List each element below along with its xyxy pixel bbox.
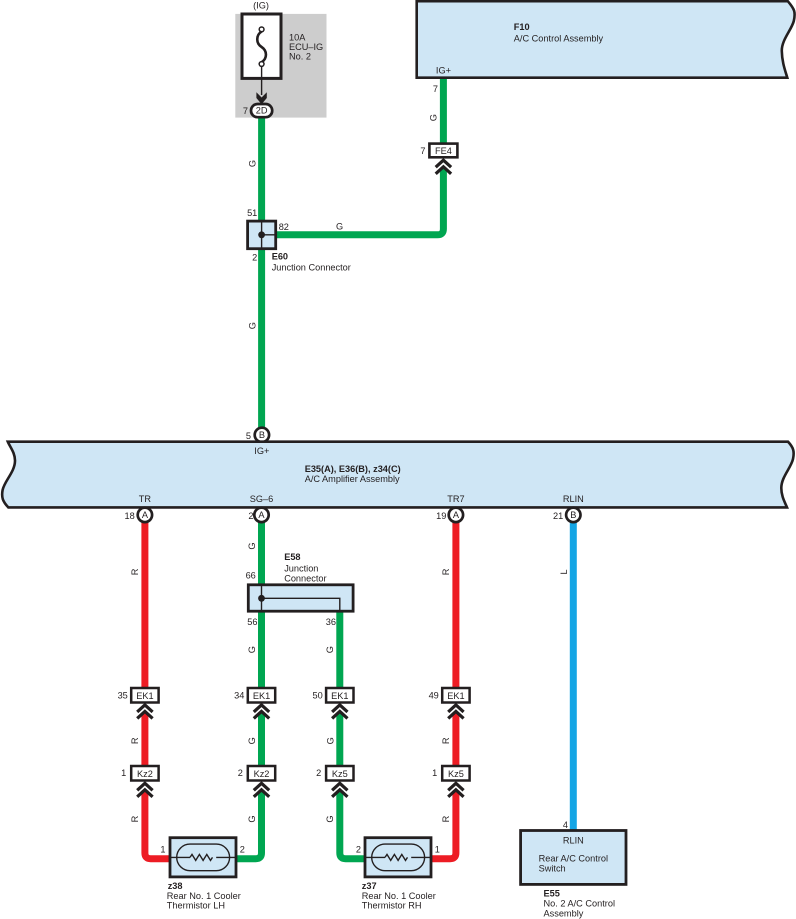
svg-text:RLIN: RLIN	[563, 836, 584, 846]
shield chevrons Kz5-2	[332, 783, 347, 790]
svg-text:18: 18	[124, 511, 134, 521]
svg-text:E60: E60	[272, 252, 288, 262]
shield chevrons EK1-49	[448, 705, 463, 712]
svg-text:No. 2 A/C Control: No. 2 A/C Control	[544, 899, 616, 909]
svg-text:51: 51	[247, 208, 257, 218]
svg-text:4: 4	[563, 820, 568, 830]
wire green main 2D to B	[258, 117, 265, 428]
svg-text:2: 2	[316, 768, 321, 778]
svg-text:(IG): (IG)	[253, 1, 269, 11]
svg-text:E58: E58	[284, 552, 300, 562]
shield chevrons Kz2-1	[137, 783, 152, 790]
svg-text:Kz5: Kz5	[332, 769, 348, 779]
junction connector E58	[246, 552, 354, 627]
wire blue RLIN to E55	[570, 521, 577, 831]
thermistor z38	[160, 838, 244, 911]
svg-text:Rear No. 1 Cooler: Rear No. 1 Cooler	[167, 891, 241, 901]
svg-text:5: 5	[246, 431, 251, 441]
svg-text:G: G	[336, 221, 343, 231]
svg-text:z37: z37	[362, 881, 377, 891]
svg-text:2: 2	[248, 511, 253, 521]
svg-text:EK1: EK1	[447, 691, 464, 701]
svg-text:49: 49	[429, 691, 439, 701]
svg-text:Kz2: Kz2	[137, 769, 153, 779]
fuse 10A ECU-IG No.2	[242, 1, 323, 96]
svg-text:2: 2	[356, 845, 361, 855]
svg-text:G: G	[325, 646, 335, 653]
svg-text:Thermistor LH: Thermistor LH	[167, 901, 225, 911]
svg-text:G: G	[247, 160, 257, 167]
wire red TR to z38 pin1	[141, 521, 148, 688]
svg-text:35: 35	[118, 691, 128, 701]
shield chevrons below FE4	[436, 160, 451, 167]
connector FE4	[420, 144, 457, 158]
svg-text:82: 82	[279, 222, 289, 232]
svg-text:R: R	[130, 737, 140, 744]
svg-text:G: G	[247, 815, 257, 822]
svg-text:A: A	[142, 510, 149, 520]
connector Kz2 pin1	[121, 766, 158, 781]
svg-text:G: G	[428, 114, 438, 121]
svg-text:G: G	[247, 737, 257, 744]
arrow into 2D	[256, 92, 266, 104]
svg-text:E35(A), E36(B), z34(C): E35(A), E36(B), z34(C)	[305, 464, 401, 474]
switch E55 Rear A/C Control Switch	[521, 831, 626, 919]
svg-text:66: 66	[246, 570, 256, 580]
svg-text:ECU–IG: ECU–IG	[289, 42, 323, 52]
svg-text:G: G	[247, 542, 257, 549]
svg-text:FE4: FE4	[435, 146, 452, 156]
svg-text:R: R	[130, 815, 140, 822]
svg-text:R: R	[441, 815, 451, 822]
svg-text:21: 21	[553, 511, 563, 521]
wire green E58-56 to z38 pin2	[258, 612, 265, 689]
connector EK1 pin34	[234, 688, 275, 703]
svg-text:Rear No. 1 Cooler: Rear No. 1 Cooler	[362, 891, 436, 901]
pin A 19 TR7	[436, 508, 463, 522]
svg-text:Junction: Junction	[284, 564, 318, 574]
svg-text:R: R	[441, 568, 451, 575]
svg-text:2D: 2D	[256, 106, 268, 116]
svg-text:EK1: EK1	[331, 691, 348, 701]
svg-text:F10: F10	[514, 22, 530, 32]
svg-text:G: G	[247, 322, 257, 329]
svg-text:Assembly: Assembly	[544, 908, 584, 918]
svg-text:Rear A/C Control: Rear A/C Control	[539, 854, 608, 864]
svg-text:No. 2: No. 2	[289, 52, 311, 62]
wire green F10 to FE4	[440, 77, 447, 144]
svg-text:z38: z38	[168, 881, 183, 891]
svg-text:SG–6: SG–6	[250, 494, 274, 504]
shield chevrons Kz2-2	[254, 783, 269, 790]
connector Kz5 pin2	[316, 766, 353, 781]
svg-text:B: B	[570, 510, 576, 520]
fuse block gray background	[235, 14, 326, 118]
connector Kz5 pin1	[432, 766, 469, 781]
svg-text:A/C Amplifier Assembly: A/C Amplifier Assembly	[305, 474, 400, 484]
svg-text:Kz2: Kz2	[254, 769, 270, 779]
svg-text:G: G	[326, 737, 336, 744]
svg-text:R: R	[130, 568, 140, 575]
svg-text:EK1: EK1	[253, 691, 270, 701]
svg-text:R: R	[441, 737, 451, 744]
connector F10 A/C Control Assembly	[417, 1, 795, 78]
svg-text:B: B	[259, 430, 265, 440]
shield chevrons EK1-34	[254, 705, 269, 712]
junction connector E60	[247, 208, 351, 272]
svg-text:A: A	[258, 510, 265, 520]
svg-text:1: 1	[435, 845, 440, 855]
svg-text:TR: TR	[139, 494, 152, 504]
pin A 2 SG-6	[248, 508, 268, 522]
connector 2D	[243, 104, 272, 117]
svg-text:G: G	[247, 646, 257, 653]
A/C Amplifier Assembly band	[2, 442, 794, 508]
svg-text:2: 2	[238, 768, 243, 778]
svg-text:50: 50	[312, 691, 322, 701]
svg-text:Junction Connector: Junction Connector	[272, 262, 351, 272]
connector Kz2 pin2	[238, 766, 275, 781]
svg-text:Kz5: Kz5	[448, 769, 464, 779]
wire green E58-36 to z37 pin2	[336, 612, 343, 689]
pin A 18 TR	[124, 508, 152, 522]
svg-text:IG+: IG+	[254, 446, 269, 456]
shield chevrons Kz5-1	[448, 783, 463, 790]
svg-text:Connector: Connector	[284, 574, 326, 584]
svg-text:L: L	[559, 569, 569, 574]
svg-text:7: 7	[420, 146, 425, 156]
svg-text:EK1: EK1	[136, 691, 153, 701]
shield chevrons EK1-35	[137, 705, 152, 712]
svg-text:RLIN: RLIN	[563, 494, 584, 504]
svg-text:36: 36	[326, 617, 336, 627]
connector EK1 pin35	[118, 688, 159, 703]
svg-text:1: 1	[160, 845, 165, 855]
svg-text:A: A	[453, 510, 460, 520]
connector EK1 pin49	[429, 688, 470, 703]
wire red TR7 to z37 pin1	[452, 521, 459, 688]
pin B 21 RLIN	[553, 508, 581, 522]
svg-text:34: 34	[234, 691, 244, 701]
thermistor z37	[356, 838, 440, 911]
svg-text:Switch: Switch	[539, 863, 566, 873]
svg-text:1: 1	[432, 768, 437, 778]
svg-text:1: 1	[121, 768, 126, 778]
svg-text:7: 7	[243, 106, 248, 116]
svg-text:G: G	[325, 815, 335, 822]
svg-text:A/C Control Assembly: A/C Control Assembly	[514, 33, 604, 43]
shield chevrons EK1-50	[332, 705, 347, 712]
svg-text:IG+: IG+	[436, 66, 451, 76]
pin B 5 into amplifier	[246, 428, 269, 442]
svg-text:19: 19	[436, 511, 446, 521]
wire green SG-6 to E58	[258, 521, 265, 585]
svg-text:2: 2	[252, 252, 257, 262]
svg-text:10A: 10A	[289, 32, 306, 42]
svg-text:2: 2	[240, 845, 245, 855]
svg-text:7: 7	[433, 84, 438, 94]
svg-text:Thermistor RH: Thermistor RH	[362, 901, 422, 911]
svg-text:E55: E55	[544, 889, 560, 899]
wire green FE4 to E60	[275, 168, 443, 235]
svg-text:56: 56	[247, 617, 257, 627]
svg-text:TR7: TR7	[447, 494, 464, 504]
connector EK1 pin50	[312, 688, 353, 703]
